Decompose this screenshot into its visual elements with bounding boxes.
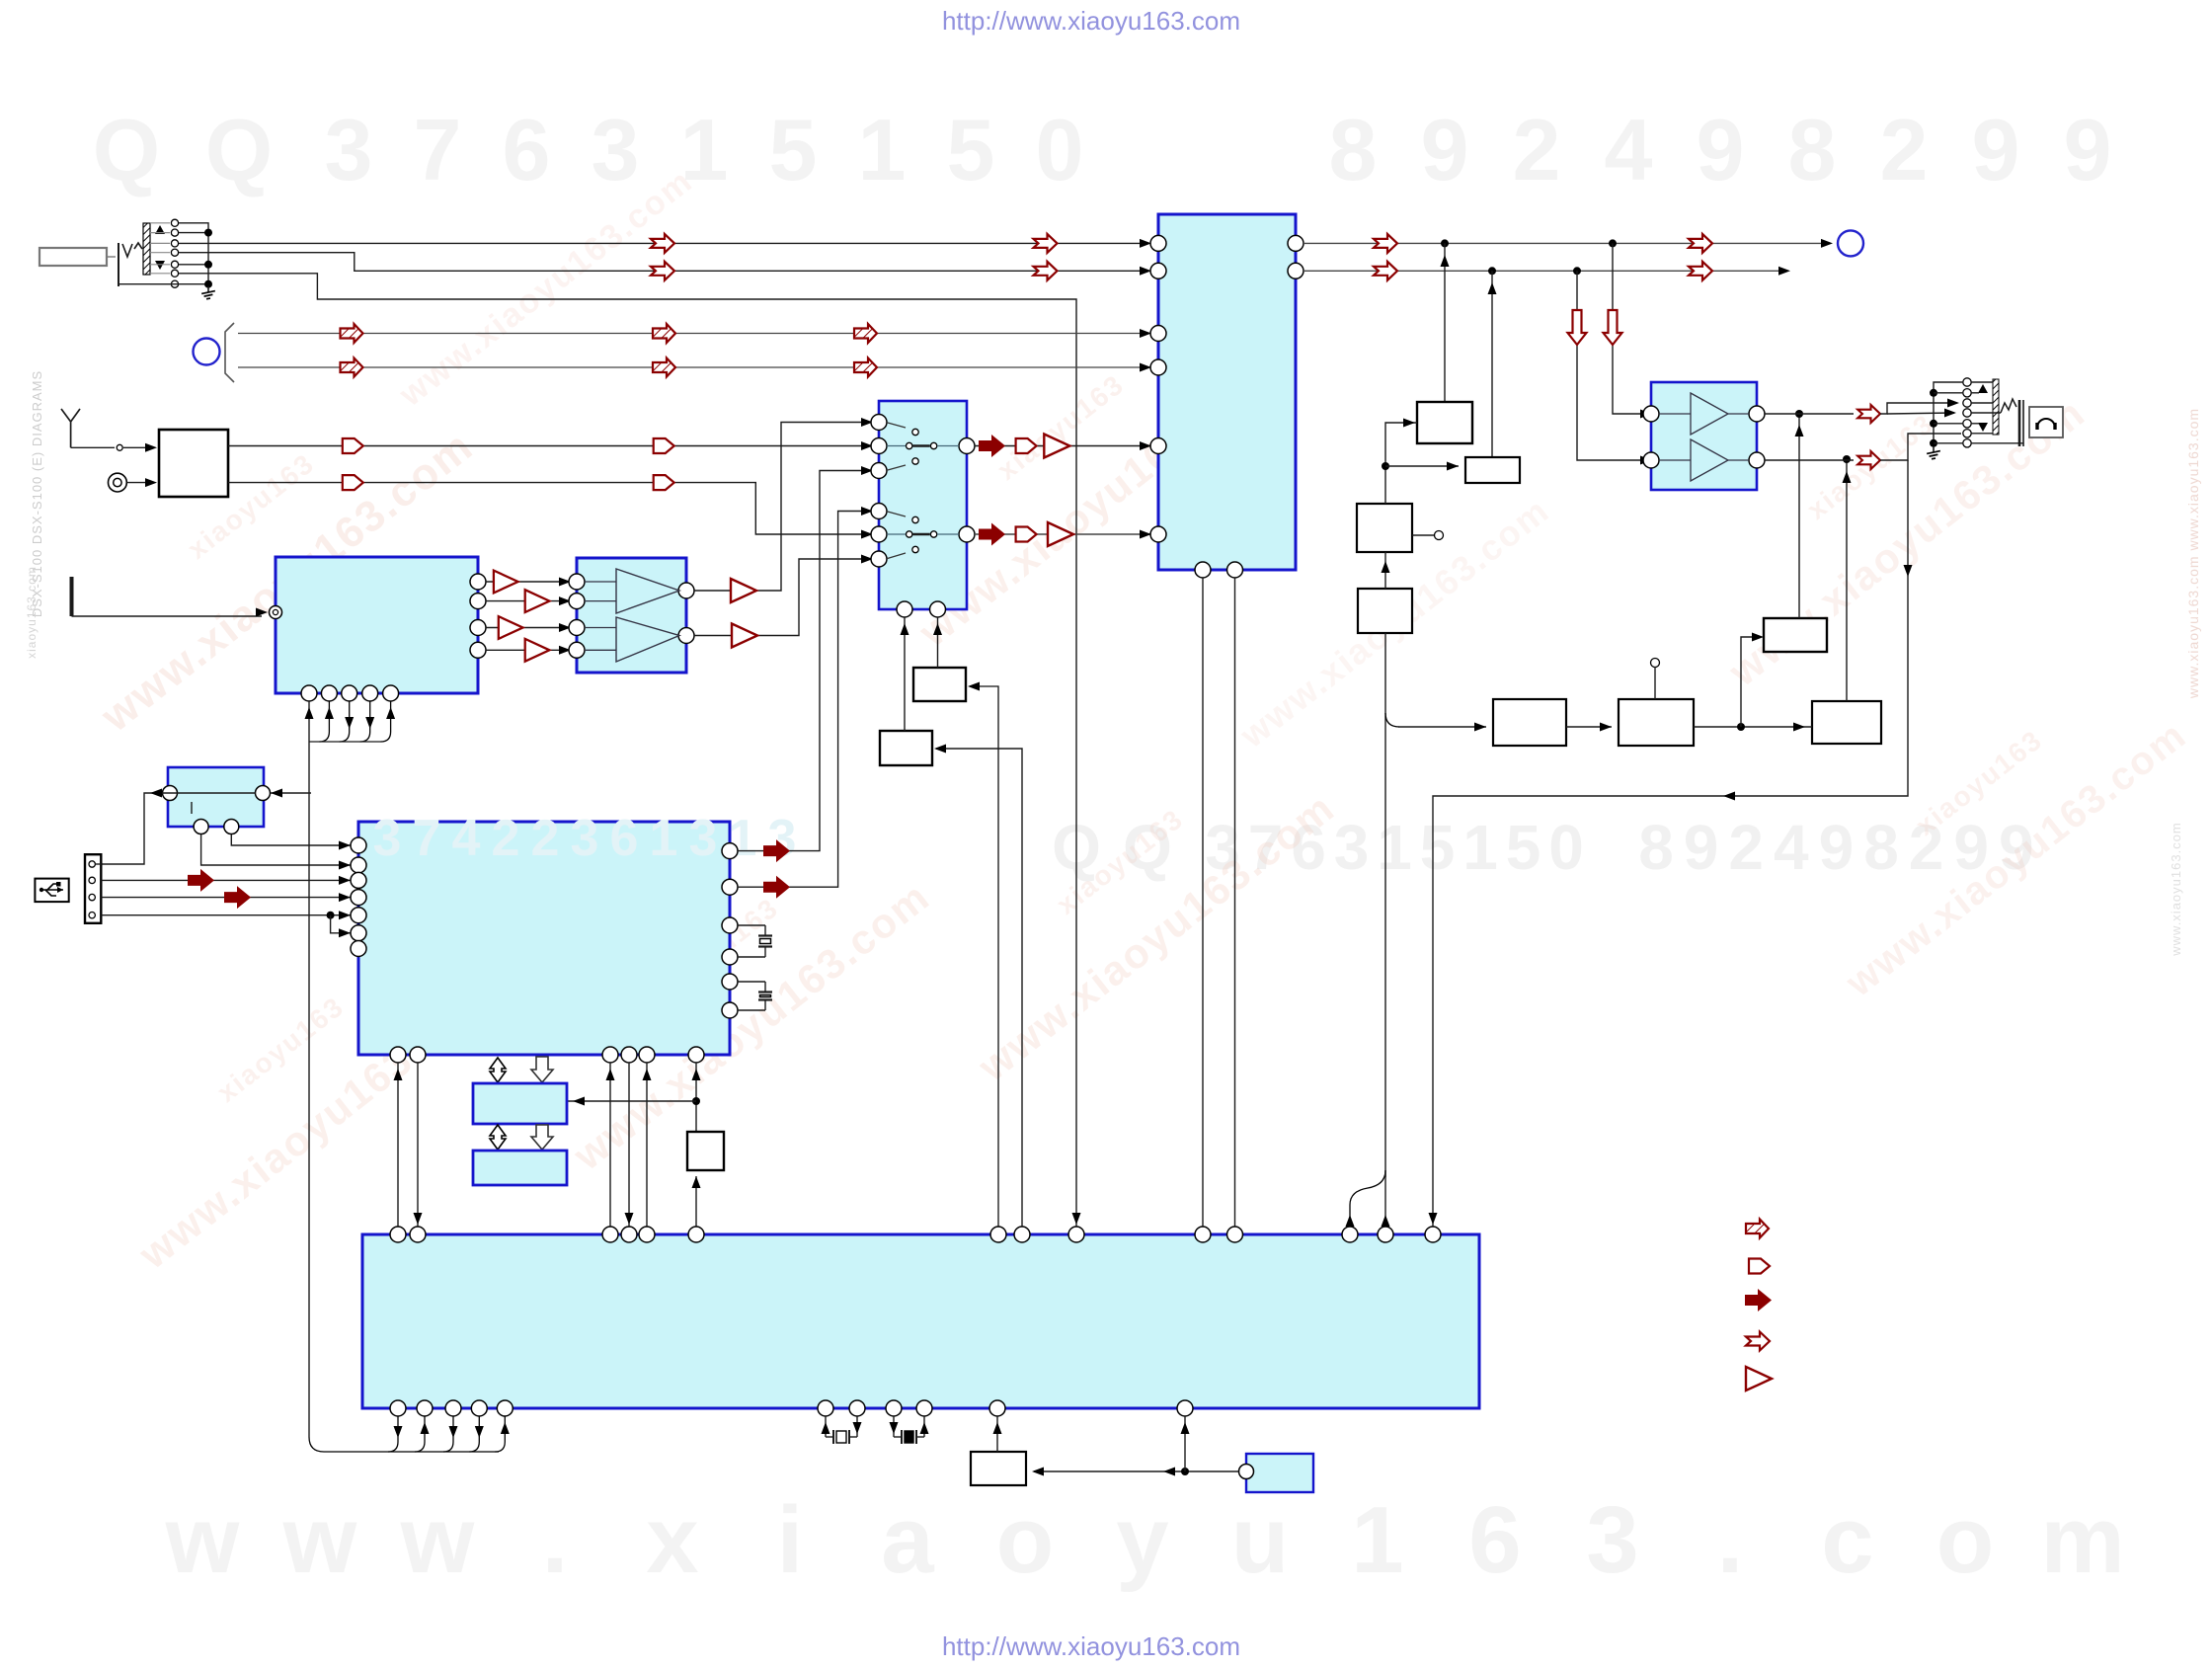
svg-text:1: 1 (1462, 812, 1498, 883)
svg-text:9: 9 (1819, 812, 1855, 883)
svg-text:1: 1 (650, 810, 678, 867)
svg-text:http://www.xiaoyu163.com: http://www.xiaoyu163.com (942, 6, 1240, 36)
svg-text:5: 5 (1506, 812, 1541, 883)
svg-text:4: 4 (1605, 101, 1653, 199)
svg-text:8: 8 (1863, 812, 1899, 883)
svg-text:5: 5 (769, 101, 818, 199)
svg-text:3: 3 (768, 810, 797, 867)
svg-text:a: a (881, 1487, 934, 1593)
svg-text:www.xiaoyu163.com: www.xiaoyu163.com (2169, 822, 2183, 957)
svg-text:1: 1 (1351, 1487, 1403, 1593)
svg-text:www.xiaoyu163.com www.xiaoyu1: www.xiaoyu163.com www.xiaoyu163.com (2185, 408, 2201, 699)
svg-text:9: 9 (1684, 812, 1719, 883)
svg-text:8: 8 (1638, 812, 1674, 883)
svg-text:5: 5 (947, 101, 995, 199)
svg-text:Q: Q (93, 101, 160, 199)
svg-text:m: m (2040, 1487, 2124, 1593)
svg-text:xiaoyu163.com: xiaoyu163.com (25, 566, 39, 659)
svg-text:i: i (777, 1487, 804, 1593)
svg-text:9: 9 (1697, 101, 1745, 199)
svg-text:3: 3 (571, 810, 599, 867)
svg-text:http://www.xiaoyu163.com: http://www.xiaoyu163.com (942, 1631, 1240, 1661)
svg-text:3: 3 (592, 101, 640, 199)
svg-text:6: 6 (610, 810, 639, 867)
svg-text:7: 7 (413, 810, 441, 867)
svg-text:w: w (400, 1487, 475, 1593)
svg-text:1: 1 (858, 101, 907, 199)
svg-text:6: 6 (1468, 1487, 1521, 1593)
svg-text:0: 0 (1548, 812, 1584, 883)
svg-text:2: 2 (492, 810, 520, 867)
svg-text:0: 0 (1036, 101, 1084, 199)
svg-text:9: 9 (1421, 101, 1469, 199)
svg-text:1: 1 (1377, 812, 1412, 883)
svg-text:Q: Q (205, 101, 273, 199)
svg-text:7: 7 (414, 101, 462, 199)
svg-text:o: o (996, 1487, 1055, 1593)
svg-text:3: 3 (373, 810, 402, 867)
svg-text:6: 6 (503, 101, 551, 199)
svg-text:4: 4 (452, 810, 481, 867)
svg-text:9: 9 (2064, 101, 2112, 199)
svg-text:u: u (1231, 1487, 1290, 1593)
svg-text:2: 2 (1728, 812, 1764, 883)
svg-text:5: 5 (1420, 812, 1456, 883)
svg-text:.: . (1717, 1487, 1744, 1593)
svg-text:.: . (542, 1487, 569, 1593)
svg-text:8: 8 (1788, 101, 1837, 199)
svg-text:3: 3 (1586, 1487, 1638, 1593)
svg-text:x: x (646, 1487, 698, 1593)
svg-text:y: y (1116, 1487, 1168, 1593)
svg-text:9: 9 (1972, 101, 2020, 199)
svg-text:c: c (1821, 1487, 1873, 1593)
svg-text:2: 2 (1513, 101, 1561, 199)
svg-text:4: 4 (1774, 812, 1809, 883)
svg-text:2: 2 (531, 810, 560, 867)
svg-text:w: w (282, 1487, 357, 1593)
svg-text:3: 3 (325, 101, 373, 199)
svg-text:8: 8 (1329, 101, 1378, 199)
svg-text:2: 2 (1880, 101, 1929, 199)
svg-text:3: 3 (689, 810, 718, 867)
svg-text:o: o (1936, 1487, 1995, 1593)
svg-text:w: w (165, 1487, 240, 1593)
